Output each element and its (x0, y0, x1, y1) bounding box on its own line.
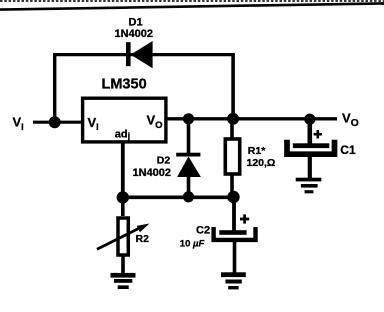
wire: C2 to ground (233, 242, 237, 274)
ground (below R2) (111, 273, 136, 289)
wire: VO rail down to R1 (230, 119, 234, 138)
wire: R2 bottom to ground (121, 256, 125, 274)
junction: adj rail / D2 anode (183, 191, 194, 202)
diode D2 (1N4002), cathode bar top, triangle pointing up (176, 153, 201, 177)
svg-text:10 µF: 10 µF (180, 239, 205, 250)
svg-text:C2: C2 (196, 225, 210, 237)
potentiometer R2 (box with arrow) (97, 218, 150, 255)
junction: VO rail / R1 top / D1 loop (227, 113, 239, 125)
wire: adj rail down to C2 (232, 197, 236, 231)
svg-text:C1: C1 (340, 143, 356, 157)
resistor R1 (box) (225, 139, 239, 174)
ground (below C2) (221, 272, 246, 289)
svg-text:1N4002: 1N4002 (115, 28, 154, 40)
wire: VI terminal to LM350 VI pin (33, 121, 82, 124)
wire: LM350 adj pin down to adj rail (121, 142, 125, 198)
wire: R1 bottom to adj rail (230, 176, 234, 198)
wire: adj node down to R2 (121, 197, 125, 216)
polarity + (C2) (240, 214, 249, 223)
ground (below C1) (296, 178, 322, 194)
wire: VO rail down to D2 cathode (187, 119, 191, 153)
junction: adj rail / R1 bottom / C2 top (227, 191, 239, 203)
junction: VO rail / D2 cathode branch (183, 113, 194, 124)
wire: adj rail (adj net horizontal) (123, 196, 234, 200)
diode D1 (1N4002), cathode bar left, triangle pointing left (126, 41, 153, 68)
junction: input node (49, 116, 61, 128)
wire: left vertical (input node up to D1 loop) (53, 53, 56, 123)
wire: top horizontal (D1 branch) (53, 53, 235, 56)
wire: C1 to ground (308, 156, 312, 179)
svg-text:LM350: LM350 (102, 76, 147, 92)
svg-text:1N4002: 1N4002 (133, 167, 172, 179)
wire: D2 anode down to adj rail (187, 176, 191, 197)
junction: VO rail / C1 branch (304, 114, 315, 125)
svg-text:adj: adj (115, 128, 130, 141)
svg-text:R2: R2 (136, 233, 150, 245)
wire: output rail (VO net) (166, 117, 337, 120)
svg-text:D1: D1 (129, 16, 143, 28)
svg-text:R1*: R1* (248, 145, 266, 157)
capacitor C2 10uF electrolytic (plate and cup) (214, 227, 256, 240)
svg-text:120,Ω: 120,Ω (247, 157, 276, 169)
wire: VO rail down to C1 (307, 119, 312, 145)
wire: right vertical (D1 loop down to output rail) (231, 53, 235, 119)
capacitor C1 electrolytic (plate and cup) (287, 140, 335, 154)
regulator U1 LM350 (box) (83, 98, 166, 142)
junction: adj node / R2 top (117, 191, 129, 203)
polarity + (C1) (314, 130, 322, 138)
svg-text:D2: D2 (157, 155, 171, 167)
